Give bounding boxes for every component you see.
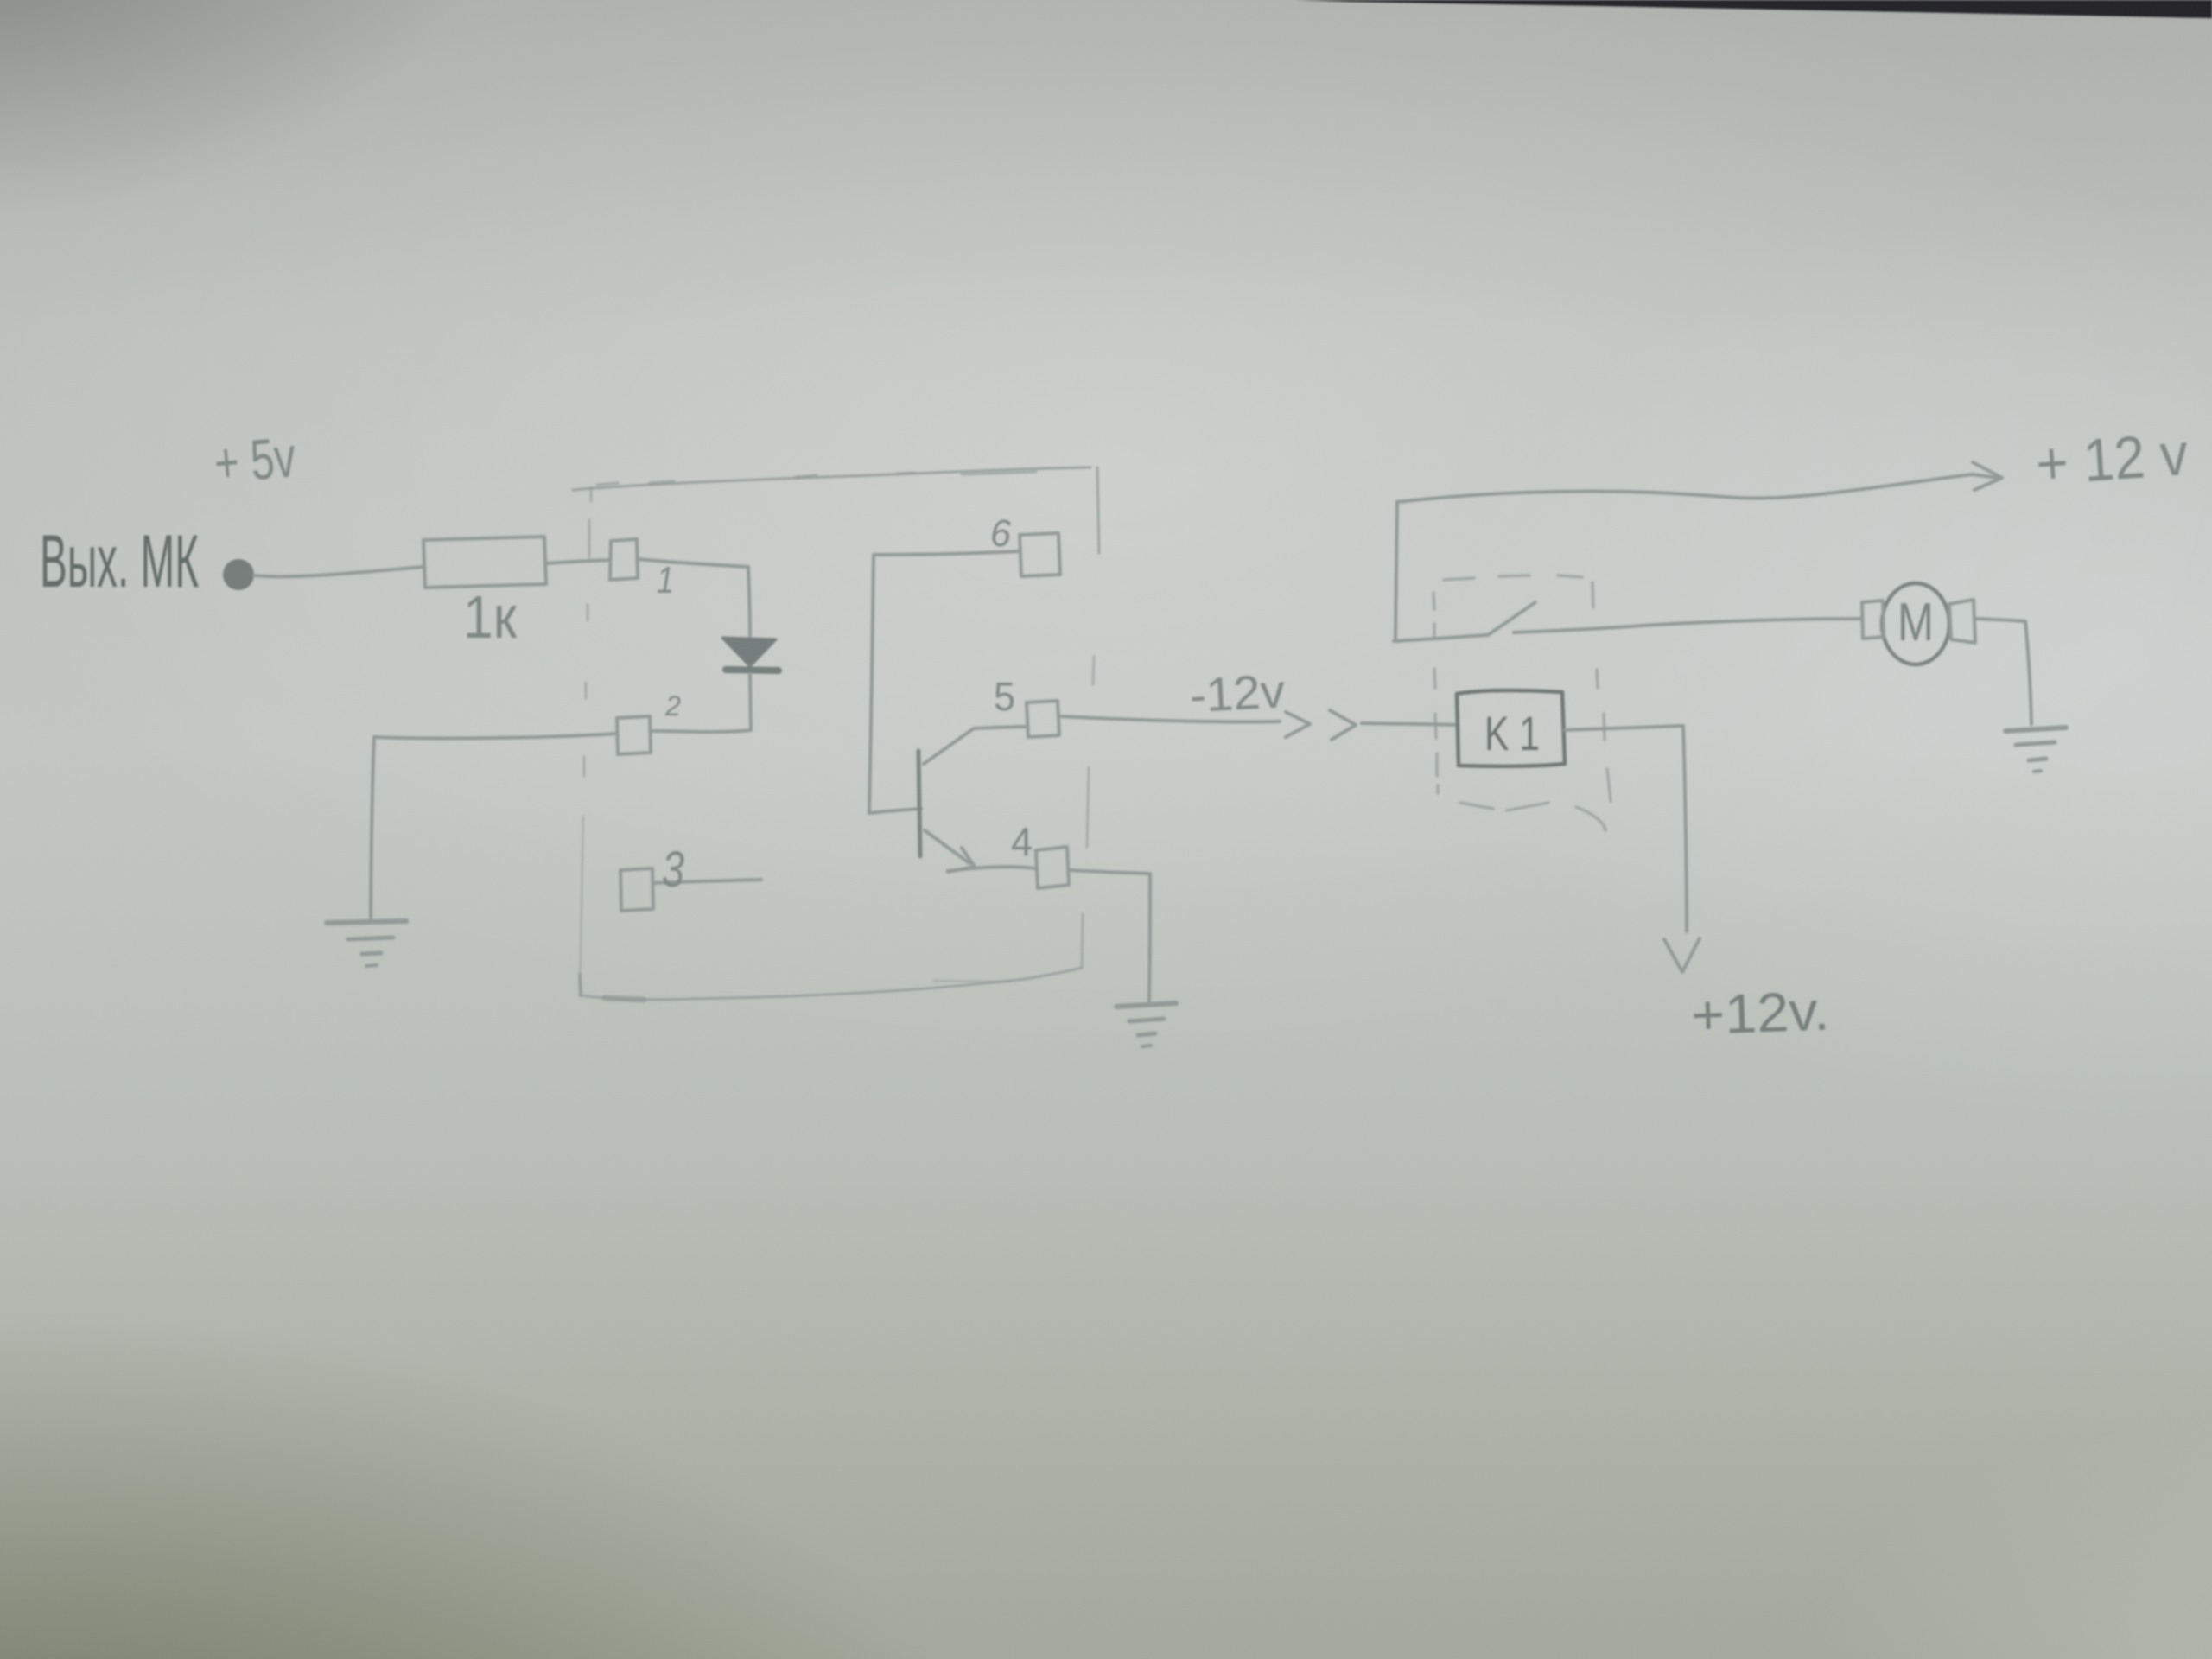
ground GND2 (1116, 1003, 1176, 1007)
wire LED to pin2 (651, 674, 751, 732)
node Вых.МК dot (223, 559, 254, 590)
pin 5 box (1027, 701, 1059, 737)
wire contact to motor (1514, 619, 1861, 632)
collector to pin5 (924, 727, 1027, 764)
LED D1 triangle (722, 638, 776, 666)
optocoupler bottom edge (580, 975, 581, 995)
wire K1 right corner down (1565, 726, 1687, 931)
emitter with arrow (925, 830, 969, 863)
LED cathode bar (726, 670, 779, 671)
contact box bottom edge (1394, 635, 1486, 641)
optocoupler right dashed edge (1097, 467, 1099, 553)
wire resistor to pin1 (546, 560, 610, 563)
pin 4 box (1036, 847, 1069, 888)
relay dashed box left (1433, 593, 1438, 793)
wire pin4 right and down (1069, 870, 1150, 1001)
wire pin5 to arrows (1059, 716, 1280, 722)
ground GND1 (327, 921, 406, 923)
motor M circle (1882, 583, 1949, 664)
inner box / wire to pin6 (869, 551, 1020, 813)
pin 1 box (610, 539, 638, 580)
contact box left edge (1395, 502, 1397, 641)
motor left terminal (1862, 601, 1884, 639)
relay dashed box right (1597, 670, 1611, 801)
optocoupler left dashed edge (584, 487, 591, 776)
dark table edge band top-right (1296, 0, 2212, 18)
+12v top wire with arrow (1397, 474, 1998, 502)
ground GND3 (2005, 728, 2066, 731)
pin 3 box (620, 868, 653, 911)
relay dashed box bottom (1460, 803, 1605, 830)
wire node to resistor (254, 567, 423, 576)
wire pin2 left and down to ground (371, 734, 617, 918)
down arrowhead +12v (1664, 938, 1700, 972)
pin 2 box (617, 716, 651, 754)
K1 coil box (1457, 690, 1565, 766)
wire pin1 to LED anode (638, 559, 750, 636)
arrowhead on -12v wire (1286, 712, 1310, 737)
motor right terminal (1949, 600, 1975, 643)
switch blade (1488, 602, 1535, 635)
relay dashed box top (1444, 575, 1582, 580)
wire motor right corner down (1975, 619, 2031, 724)
wire pin3 (653, 880, 761, 883)
optocoupler U1 dashed outline top (573, 467, 1090, 490)
wire to K1 (1362, 723, 1457, 725)
handwritten labels (40, 420, 2190, 1046)
resistor R1 body (423, 537, 546, 588)
chevron connector (1330, 710, 1356, 740)
pin 6 box (1020, 533, 1060, 576)
phototransistor Q1 base bar (918, 751, 920, 856)
